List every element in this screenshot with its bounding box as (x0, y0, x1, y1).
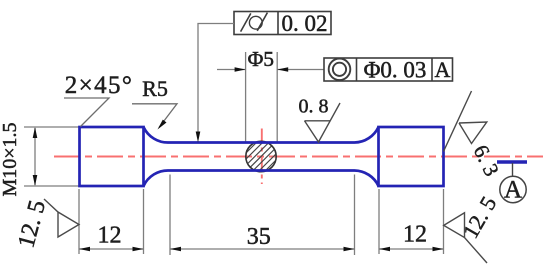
dimension phi5 arrow tails (217, 69, 246, 71)
datum A target bar (497, 160, 527, 163)
svg-text:A: A (435, 57, 451, 82)
dimension 12 left line (79, 248, 144, 250)
dimension M10x1.5 extension lines (24, 52, 444, 255)
fillet bottom-left + shaft bottom edge + fillet bottom-right (144, 170, 379, 186)
arrow 12L right (133, 247, 144, 252)
arrow phi5 right (points left) (277, 67, 288, 72)
arrow M10 top (33, 127, 38, 138)
datum A circle (500, 176, 526, 202)
svg-text:R5: R5 (142, 76, 168, 101)
right head rectangle (379, 127, 444, 186)
arrow 12L left (79, 247, 90, 252)
section circle outline (246, 141, 276, 171)
arrow 35 right (344, 247, 355, 252)
arrow M10 bottom (33, 175, 38, 186)
leader R5 (132, 104, 177, 128)
svg-text:0. 8: 0. 8 (299, 96, 329, 118)
roughness 6.3 symbol (444, 91, 487, 152)
fillet top-left + shaft top edge + fillet top-right (144, 127, 379, 143)
leader 2x45 (64, 98, 109, 127)
svg-text:2×45°: 2×45° (65, 72, 134, 99)
svg-text:M10×1.5: M10×1.5 (0, 122, 21, 196)
node section vertical centerline (261, 129, 263, 185)
svg-text:12: 12 (403, 222, 427, 248)
arrow phi5 left (points right) (235, 67, 246, 72)
svg-text:Φ5: Φ5 (248, 47, 274, 71)
svg-text:12: 12 (98, 223, 122, 249)
svg-text:Φ0. 03: Φ0. 03 (364, 58, 427, 83)
dimension 12 right extension lines (378, 189, 380, 254)
cylindricity leader arrow (196, 132, 201, 143)
left head rectangle (80, 127, 144, 186)
svg-text:35: 35 (247, 224, 271, 250)
cylindricity frame (234, 12, 331, 35)
svg-text:0. 02: 0. 02 (282, 11, 328, 36)
arrow 12R left (379, 247, 390, 252)
datum A stem (512, 163, 514, 177)
dimension 12 left extension lines (78, 189, 80, 254)
dimension 35 extension lines (169, 175, 171, 256)
roughness 12.5 right symbol (444, 213, 487, 263)
cylindricity symbol (249, 16, 262, 29)
node axis centerline (54, 156, 543, 158)
arrows (black) (33, 67, 444, 251)
roughness 12.5 left symbol (44, 199, 79, 237)
dimension phi5 extension lines (245, 52, 247, 142)
roughness 0.8 symbol (305, 103, 341, 142)
arrow 35 left (170, 247, 181, 252)
leader R5 arrow (158, 120, 167, 130)
part outline (blue) (80, 127, 444, 186)
dimension 35 line (170, 248, 355, 250)
dimension M10x1.5 line (34, 128, 36, 185)
concentricity frame (324, 58, 453, 81)
arrow 12R right (433, 247, 444, 252)
concentricity symbol (329, 59, 351, 81)
svg-text:A: A (504, 177, 522, 204)
dimension 12 right line (379, 248, 444, 250)
cylindricity leader (198, 24, 234, 138)
